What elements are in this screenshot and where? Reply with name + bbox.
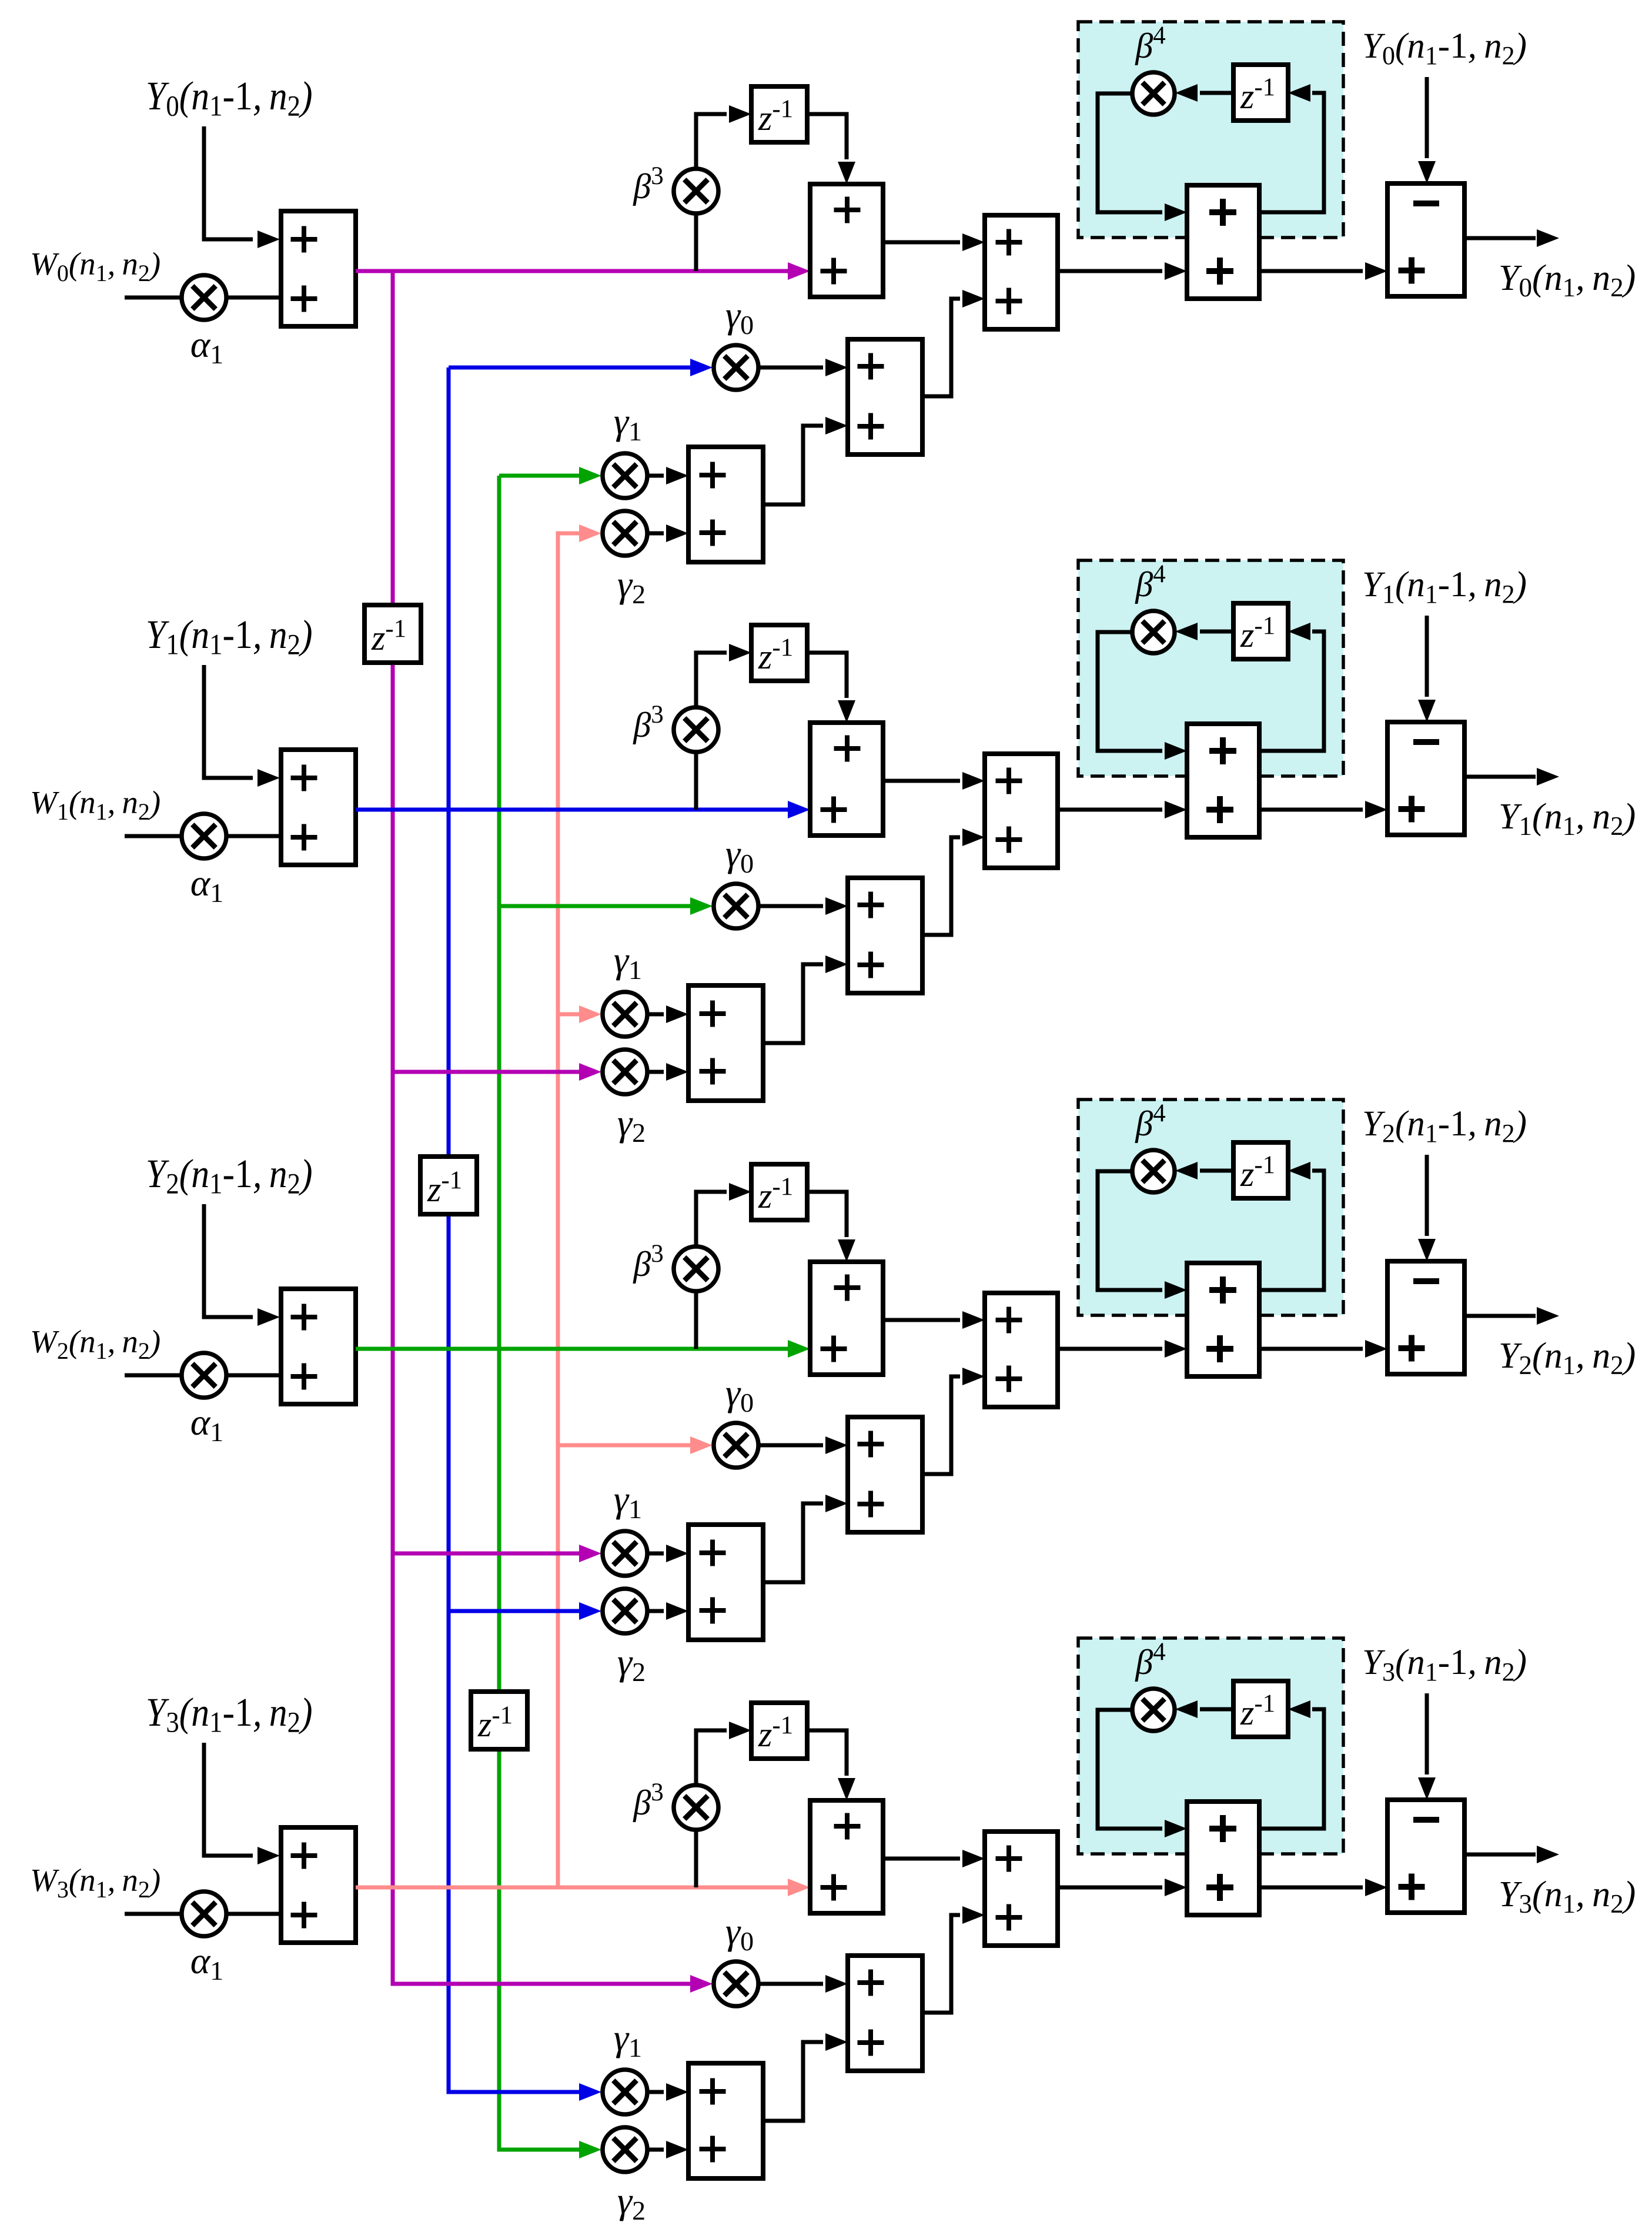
multiplier beta4 (row 0) (1132, 72, 1175, 115)
wire Y3(n1-1,n2) into input adder (204, 1743, 280, 1864)
delay z-1 on green bus (471, 1692, 527, 1749)
wire delay to beta4 (row 3) (1175, 1700, 1233, 1718)
wire gamma2 to adder (row 3) (647, 2141, 688, 2158)
adder stage2 (row 3) (985, 1832, 1058, 1946)
subtractor (row 3) (1387, 1800, 1464, 1913)
wire feedback loop (row 2) (1259, 1162, 1324, 1290)
node Y1(n1-1,n2) input label (146, 613, 313, 661)
wire alpha1 to input adder (row 2) (225, 1374, 281, 1378)
adder beta3 (row 0) (810, 184, 883, 297)
label gamma2 (row 2) (617, 1641, 646, 1687)
wire Y1(n1-1,n2) into input adder (204, 665, 280, 787)
adder input (row 3) (281, 1827, 356, 1943)
subtractor (row 2) (1387, 1261, 1464, 1374)
multiplier beta4 (row 3) (1132, 1689, 1175, 1731)
wire feedback adder to subtractor (row 2) (1259, 1340, 1387, 1358)
wire feedback loop (row 3) (1259, 1700, 1324, 1829)
wire stage2-adder to feedback adder (row 1) (1058, 801, 1187, 818)
wire delay to beta3-adder (row 3) (807, 1730, 855, 1800)
multiplier gamma2 (row 2) (603, 1589, 647, 1633)
wire alpha1 to input adder (row 1) (225, 834, 281, 838)
label gamma1 (row 1) (614, 939, 642, 985)
wire beta4 to feedback adder (row 2) (1098, 1171, 1187, 1299)
node Y0(n1,n2) output label (row 0) (1499, 258, 1636, 302)
wire feedback adder to subtractor (row 1) (1259, 801, 1387, 818)
multiplier gamma0 (row 2) (714, 1423, 758, 1468)
multiplier beta3 (row 1) (674, 707, 718, 752)
wire main row 3 output (356, 1879, 810, 1896)
wire alpha1 to input adder (row 3) (225, 1912, 281, 1916)
wire Y3(n1-1,n2) into subtractor (row 3) (1418, 1693, 1436, 1800)
wire beta3 up to delay (row 1) (696, 644, 751, 708)
wire blue tap to row0 gamma0 (449, 359, 713, 376)
label gamma1 (row 3) (614, 2017, 642, 2063)
multiplier alpha1 (row 2) (182, 1353, 226, 1398)
node Y3(n1-1,n2) input label (146, 1690, 313, 1739)
delay z-1 (row 3) (751, 1703, 807, 1759)
label gamma1 (row 0) (614, 400, 642, 446)
node Y0(n1-1,n2) top label (row 0) (1362, 26, 1527, 70)
wire gamma0 to adder (row 0) (758, 359, 848, 376)
wire gamma0-adder up to stage2 (row 1) (922, 828, 985, 935)
multiplier beta3 (row 3) (674, 1785, 718, 1830)
wire beta3 up to delay (row 3) (696, 1722, 751, 1786)
wire magenta tap to row2 gamma1 (393, 1545, 601, 1562)
adder feedback (row 3) (1187, 1802, 1259, 1915)
subtractor (row 1) (1387, 722, 1464, 835)
node Y2(n1,n2) output label (row 2) (1499, 1336, 1636, 1380)
node W1(n1,n2) input label (30, 784, 160, 825)
multiplier beta4 (row 2) (1132, 1150, 1175, 1192)
wire output Y2 (row 2) (1464, 1307, 1559, 1325)
adder input (row 0) (281, 211, 356, 326)
label alpha1 (row 1) (190, 862, 224, 908)
wire feedback loop (row 0) (1259, 84, 1324, 212)
label beta4 (row 1) (1135, 560, 1165, 604)
wire output Y1 (row 1) (1464, 768, 1559, 786)
label beta3 (row 2) (633, 1240, 663, 1284)
wire Y0(n1-1,n2) into input adder (204, 126, 280, 248)
adder beta3 (row 1) (810, 723, 883, 836)
wire pink bus (row3 out to rows 0-2) (558, 524, 601, 1887)
wire delay to beta3-adder (row 1) (807, 653, 855, 723)
wire W1 input (125, 834, 183, 838)
wire main row 1 output (356, 801, 810, 818)
adder gamma12 (row 2) (688, 1525, 763, 1640)
feedback block beta4 (row 1) (1078, 560, 1343, 776)
adder feedback (row 2) (1187, 1263, 1259, 1376)
wire output Y3 (row 3) (1464, 1846, 1559, 1863)
wire gamma1 to adder (row 0) (647, 467, 688, 484)
delay z-1 feedback (row 1) (1233, 603, 1288, 659)
adder gamma12 (row 0) (688, 447, 763, 562)
adder gamma0 (row 1) (848, 878, 922, 993)
adder feedback (row 0) (1187, 185, 1259, 299)
multiplier gamma1 (row 0) (603, 453, 647, 498)
label alpha1 (row 2) (190, 1401, 224, 1447)
wire Y2(n1-1,n2) into input adder (204, 1204, 280, 1326)
adder input (row 2) (281, 1289, 356, 1404)
adder stage2 (row 0) (985, 215, 1058, 329)
label gamma0 (row 2) (725, 1372, 754, 1418)
multiplier alpha1 (row 0) (182, 275, 226, 320)
wire W3 input (125, 1912, 183, 1916)
wire gamma0 to adder (row 2) (758, 1436, 848, 1454)
wire gamma0 to adder (row 3) (758, 1975, 848, 1993)
label beta3 (row 3) (633, 1779, 663, 1822)
wire feedback adder to subtractor (row 3) (1259, 1879, 1387, 1896)
wire green bus (row2 out to rows 0,1,3) (499, 476, 601, 2158)
wire main row 2 output (356, 1340, 810, 1358)
wire Y1(n1-1,n2) into subtractor (row 1) (1418, 616, 1436, 722)
wire beta3-adder to stage2 adder (row 2) (883, 1311, 985, 1329)
wire beta3 up to delay (row 0) (696, 105, 751, 169)
multiplier beta3 (row 0) (674, 169, 718, 213)
adder beta3 (row 3) (810, 1800, 883, 1913)
wire beta3 up to delay (row 2) (696, 1183, 751, 1247)
multiplier alpha1 (row 1) (182, 814, 226, 858)
wire W2 input (125, 1374, 183, 1378)
wire delay to beta3-adder (row 2) (807, 1192, 855, 1262)
wire beta4 to feedback adder (row 0) (1098, 93, 1187, 221)
adder stage2 (row 2) (985, 1293, 1058, 1407)
wire Y0(n1-1,n2) into subtractor (row 0) (1418, 77, 1436, 183)
label gamma0 (row 1) (725, 833, 754, 878)
wire alpha1 to input adder (row 0) (225, 296, 281, 300)
wire beta4 to feedback adder (row 3) (1098, 1710, 1187, 1837)
adder gamma0 (row 0) (848, 339, 922, 455)
wire stage2-adder to feedback adder (row 2) (1058, 1340, 1187, 1358)
wire output Y0 (row 0) (1464, 229, 1559, 247)
label alpha1 (row 3) (190, 1940, 224, 1986)
wire stage2-adder to feedback adder (row 3) (1058, 1879, 1187, 1896)
feedback block beta4 (row 3) (1078, 1638, 1343, 1854)
wire gamma0-adder up to stage2 (row 2) (922, 1368, 985, 1474)
label gamma2 (row 0) (617, 563, 646, 609)
wire beta3-adder to stage2 adder (row 3) (883, 1850, 985, 1867)
wire gamma12-adder up to gamma0-adder (row 3) (763, 2033, 848, 2121)
wire beta3-adder to stage2 adder (row 1) (883, 772, 985, 790)
node Y3(n1,n2) output label (row 3) (1499, 1874, 1636, 1919)
label beta4 (row 3) (1135, 1638, 1165, 1682)
feedback block beta4 (row 2) (1078, 1100, 1343, 1315)
node Y2(n1-1,n2) input label (146, 1152, 313, 1201)
label gamma0 (row 3) (725, 1910, 754, 1956)
wire main row 0 output (356, 262, 810, 280)
multiplier gamma1 (row 1) (603, 992, 647, 1037)
wire feedback loop (row 1) (1259, 623, 1324, 751)
multiplier alpha1 (row 3) (182, 1892, 226, 1936)
label beta4 (row 2) (1135, 1100, 1165, 1143)
multiplier gamma0 (row 1) (714, 884, 758, 928)
wire Y2(n1-1,n2) into subtractor (row 2) (1418, 1155, 1436, 1261)
delay z-1 feedback (row 3) (1233, 1681, 1288, 1737)
delay z-1 (row 1) (751, 625, 807, 681)
label beta3 (row 1) (633, 701, 663, 744)
wire beta3 down to main (row 0) (694, 213, 698, 271)
adder stage2 (row 1) (985, 754, 1058, 868)
node Y1(n1,n2) output label (row 1) (1499, 797, 1636, 841)
label beta4 (row 0) (1135, 22, 1165, 65)
delay z-1 feedback (row 2) (1233, 1142, 1288, 1198)
wire gamma12-adder up to gamma0-adder (row 2) (763, 1495, 848, 1582)
wire gamma0 to adder (row 1) (758, 897, 848, 915)
node Y1(n1-1,n2) top label (row 1) (1362, 565, 1527, 609)
label gamma0 (row 0) (725, 294, 754, 340)
delay z-1 (row 0) (751, 86, 807, 142)
wire magenta tap to row1 gamma2 (393, 1063, 601, 1081)
adder feedback (row 1) (1187, 724, 1259, 837)
wire delay to beta4 (row 1) (1175, 623, 1233, 640)
multiplier beta4 (row 1) (1132, 611, 1175, 653)
wire delay to beta4 (row 2) (1175, 1162, 1233, 1179)
node Y3(n1-1,n2) top label (row 3) (1362, 1643, 1527, 1686)
node Y2(n1-1,n2) top label (row 2) (1362, 1104, 1527, 1148)
delay z-1 on magenta bus (364, 605, 421, 663)
label gamma2 (row 3) (617, 2180, 646, 2225)
wire delay to beta4 (row 0) (1175, 84, 1233, 102)
wire gamma2 to adder (row 1) (647, 1063, 688, 1081)
multiplier beta3 (row 2) (674, 1246, 718, 1291)
wire beta3 down to main (row 2) (694, 1291, 698, 1349)
multiplier gamma2 (row 0) (603, 511, 647, 556)
subtractor (row 0) (1387, 183, 1464, 296)
wire blue bus (row1 out to rows 0,2,3) (449, 367, 601, 2101)
delay z-1 (row 2) (751, 1164, 807, 1220)
label alpha1 (row 0) (190, 323, 224, 369)
adder input (row 1) (281, 750, 356, 865)
wire pink tap to row2 gamma0 (558, 1436, 713, 1454)
adder beta3 (row 2) (810, 1262, 883, 1375)
wire gamma0-adder up to stage2 (row 0) (922, 290, 985, 396)
wire W0 input (125, 296, 183, 300)
wire feedback adder to subtractor (row 0) (1259, 262, 1387, 280)
wire green tap to row1 gamma0 (499, 897, 713, 915)
wire beta3 down to main (row 3) (694, 1829, 698, 1887)
wire green tap to row0 gamma1 (499, 467, 601, 484)
wire gamma2 to adder (row 2) (647, 1602, 688, 1620)
wire gamma1 to adder (row 1) (647, 1005, 688, 1023)
node Y0(n1-1,n2) input label (146, 74, 313, 123)
wire beta3-adder to stage2 adder (row 0) (883, 233, 985, 251)
wire gamma2 to adder (row 0) (647, 524, 688, 542)
multiplier gamma1 (row 2) (603, 1531, 647, 1576)
label gamma1 (row 2) (614, 1478, 642, 1524)
wire pink tap to row1 gamma1 (558, 1005, 601, 1023)
multiplier gamma2 (row 1) (603, 1050, 647, 1094)
multiplier gamma1 (row 3) (603, 2070, 647, 2114)
wire gamma1 to adder (row 2) (647, 1545, 688, 1562)
node W3(n1,n2) input label (30, 1862, 160, 1903)
adder gamma12 (row 3) (688, 2063, 763, 2178)
node W2(n1,n2) input label (30, 1324, 160, 1364)
node W0(n1,n2) input label (30, 246, 160, 286)
delay z-1 on blue bus (420, 1157, 477, 1214)
label gamma2 (row 1) (617, 1102, 646, 1148)
wire blue tap to row2 gamma2 (449, 1602, 601, 1620)
wire magenta bus (row0 out to rows 1-3) (393, 271, 713, 1993)
label beta3 (row 0) (633, 162, 663, 206)
adder gamma0 (row 2) (848, 1417, 922, 1532)
wire gamma12-adder up to gamma0-adder (row 1) (763, 955, 848, 1043)
multiplier gamma0 (row 3) (714, 1961, 758, 2006)
adder gamma12 (row 1) (688, 985, 763, 1101)
wire delay to beta3-adder (row 0) (807, 114, 855, 184)
feedback block beta4 (row 0) (1078, 22, 1343, 238)
wire beta3 down to main (row 1) (694, 751, 698, 810)
multiplier gamma2 (row 3) (603, 2127, 647, 2172)
multiplier gamma0 (row 0) (714, 345, 758, 390)
adder gamma0 (row 3) (848, 1956, 922, 2071)
delay z-1 feedback (row 0) (1233, 65, 1288, 121)
wire gamma0-adder up to stage2 (row 3) (922, 1906, 985, 2013)
wire gamma12-adder up to gamma0-adder (row 0) (763, 417, 848, 504)
wire stage2-adder to feedback adder (row 0) (1058, 262, 1187, 280)
wire beta4 to feedback adder (row 1) (1098, 632, 1187, 760)
wire gamma1 to adder (row 3) (647, 2083, 688, 2101)
